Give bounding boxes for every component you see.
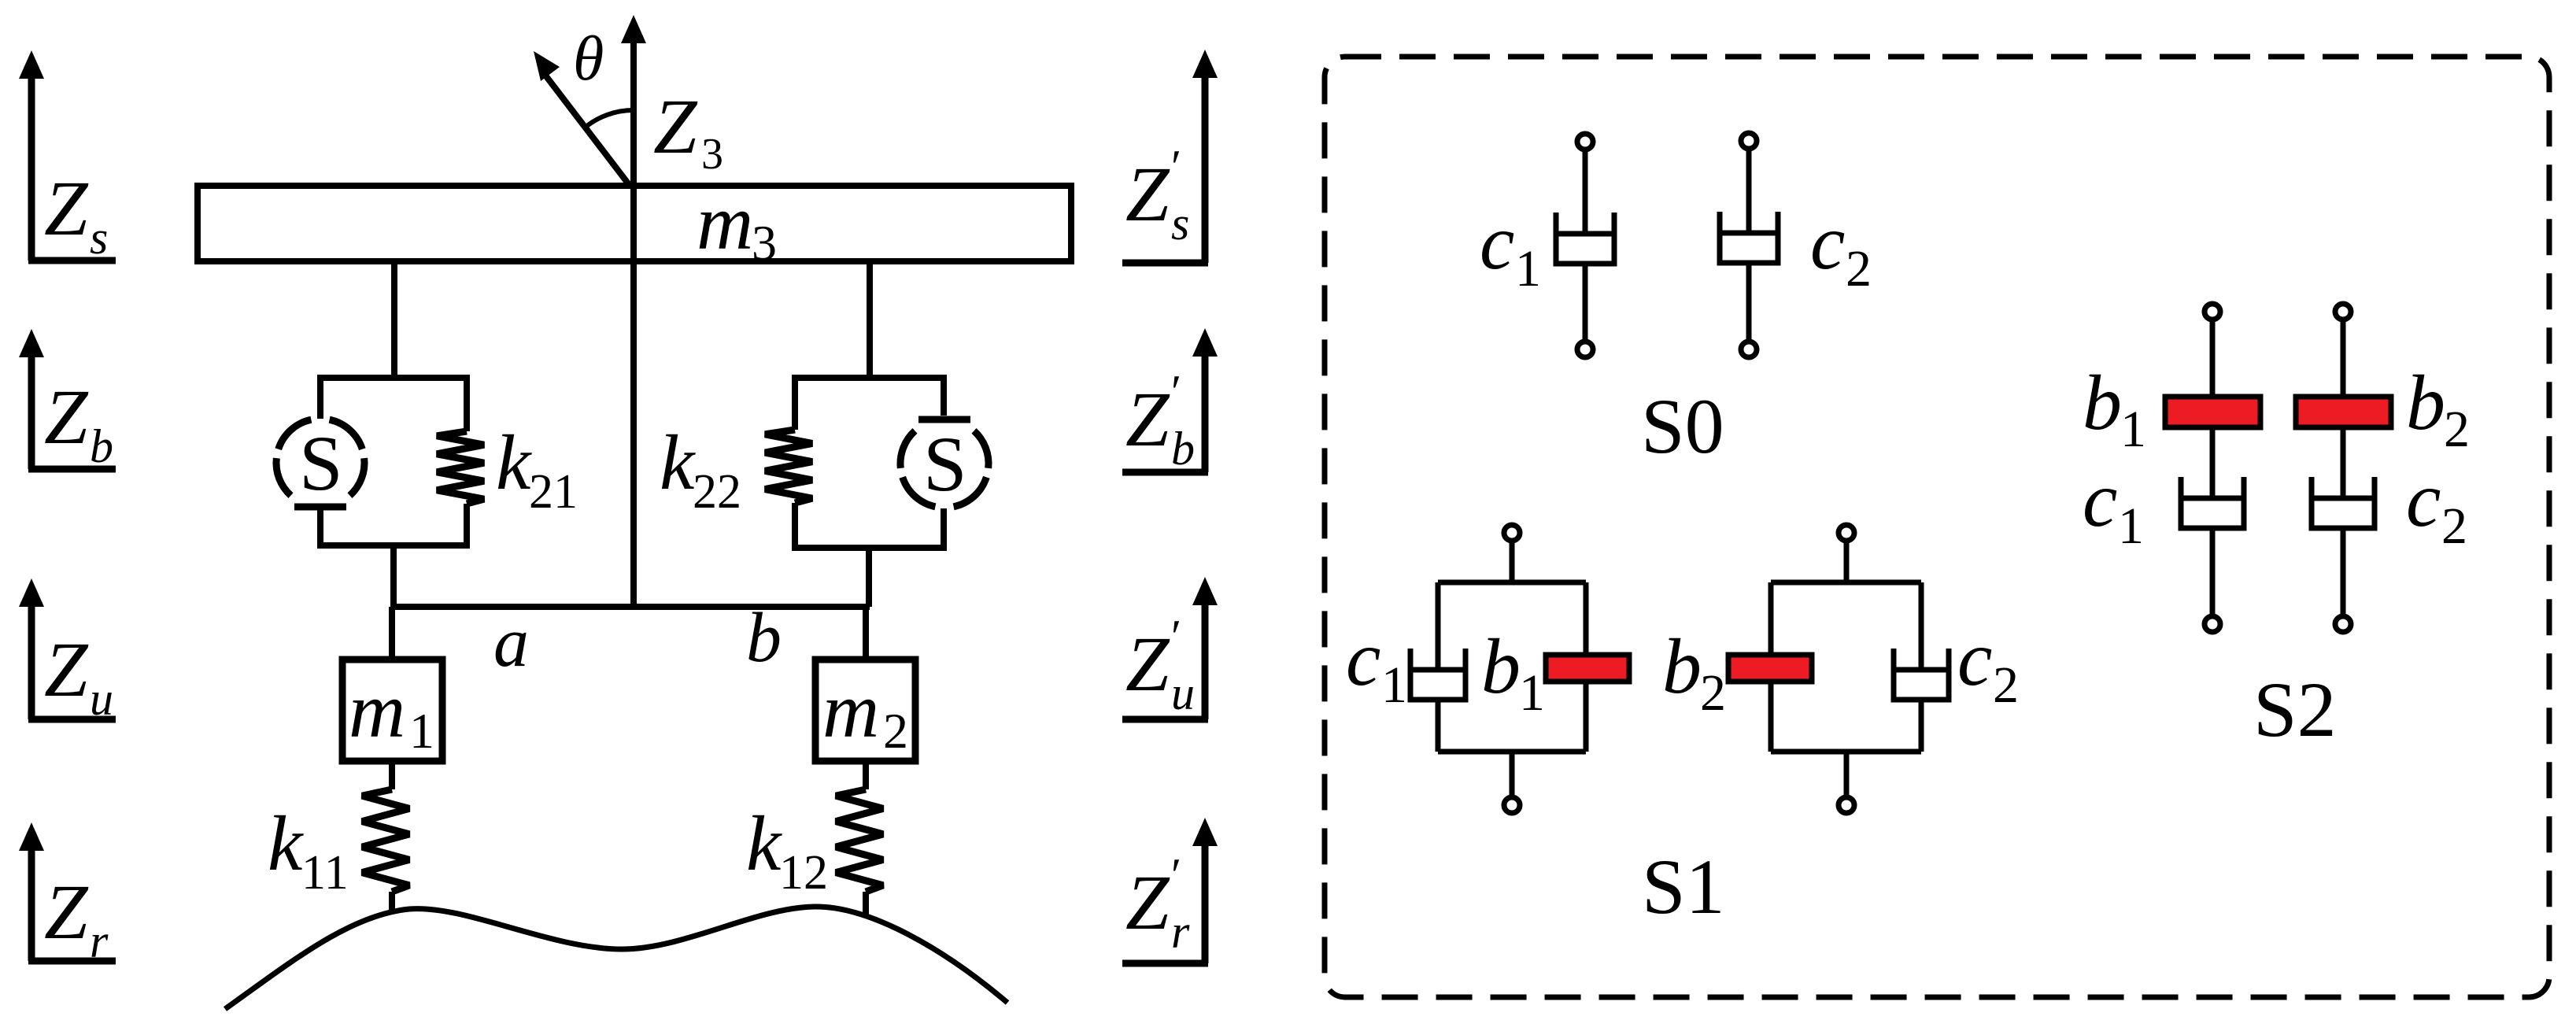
S2 branch b2 c2 bbox=[2296, 304, 2391, 632]
angle arc bbox=[584, 110, 634, 128]
pitch arrow bbox=[534, 51, 630, 187]
wire axle to m2 bbox=[863, 607, 869, 660]
wire left box to axle bbox=[390, 545, 397, 607]
S0 damper c2 bbox=[1720, 133, 1778, 357]
label c2 S2 bbox=[2406, 456, 2467, 555]
svg-text:11: 11 bbox=[301, 846, 349, 900]
svg-text:s: s bbox=[1171, 198, 1189, 249]
svg-text:2: 2 bbox=[2441, 497, 2467, 555]
svg-text:b: b bbox=[1171, 423, 1195, 475]
S1 damper c1 on left wall bbox=[1410, 649, 1465, 700]
svg-text:k: k bbox=[660, 419, 696, 506]
svg-text:b: b bbox=[90, 420, 113, 472]
label m1 bbox=[349, 667, 434, 759]
svg-text:Z: Z bbox=[1125, 150, 1170, 238]
label Z3 bbox=[653, 83, 723, 179]
svg-text:k: k bbox=[496, 419, 532, 506]
label k21 bbox=[496, 419, 578, 519]
svg-text:Z: Z bbox=[44, 164, 89, 252]
S1 valve b1 red bbox=[1546, 655, 1629, 682]
axis Z'r bbox=[1122, 818, 1218, 963]
svg-text:b: b bbox=[2083, 359, 2122, 446]
svg-text:S: S bbox=[299, 419, 343, 507]
actuator S left dashed circle bbox=[276, 419, 364, 507]
svg-text:3: 3 bbox=[752, 215, 777, 271]
axis Z's bbox=[1122, 50, 1218, 263]
svg-text:k: k bbox=[746, 800, 782, 887]
S1 right unit bbox=[1771, 525, 1921, 813]
svg-text:r: r bbox=[1171, 906, 1190, 958]
svg-text:′: ′ bbox=[1171, 141, 1181, 193]
svg-text:3: 3 bbox=[701, 130, 723, 179]
label c1 S1 bbox=[1346, 615, 1407, 714]
label k22 bbox=[660, 419, 741, 519]
svg-text:2: 2 bbox=[1846, 240, 1872, 297]
spring k22 bbox=[765, 430, 812, 503]
svg-text:2: 2 bbox=[1993, 656, 2019, 714]
Z3 axis line bbox=[621, 15, 646, 607]
svg-text:r: r bbox=[90, 915, 109, 967]
axis Zr bbox=[19, 822, 116, 967]
svg-text:1: 1 bbox=[1519, 664, 1545, 722]
svg-text:S1: S1 bbox=[1642, 843, 1725, 930]
svg-text:c: c bbox=[1957, 615, 1992, 702]
svg-text:Z: Z bbox=[1125, 859, 1170, 946]
svg-text:m: m bbox=[697, 179, 753, 266]
svg-text:θ: θ bbox=[573, 24, 604, 94]
axis Zu bbox=[19, 578, 116, 725]
svg-text:1: 1 bbox=[2118, 497, 2144, 555]
S0 damper c1 bbox=[1556, 134, 1614, 357]
svg-text:a: a bbox=[493, 604, 529, 682]
svg-text:′: ′ bbox=[1171, 849, 1181, 901]
axis Z'b bbox=[1122, 328, 1218, 475]
label m3 bbox=[697, 179, 777, 271]
label m2 bbox=[822, 667, 908, 759]
mass m1 bbox=[342, 660, 442, 761]
label k12 bbox=[746, 800, 828, 900]
wire beam to left suspension bbox=[391, 261, 397, 378]
spring k21 bbox=[437, 431, 484, 504]
svg-text:b: b bbox=[746, 599, 782, 677]
svg-text:c: c bbox=[2083, 456, 2117, 543]
svg-text:c: c bbox=[1480, 198, 1514, 286]
spring k12 bbox=[836, 761, 883, 916]
svg-text:k: k bbox=[268, 800, 304, 887]
svg-text:Z: Z bbox=[1125, 375, 1170, 463]
axis Z'u bbox=[1122, 577, 1218, 719]
svg-text:m: m bbox=[822, 667, 879, 754]
svg-text:1: 1 bbox=[1381, 656, 1407, 714]
axle bar bbox=[394, 604, 870, 610]
S2 branch b1 c1 bbox=[2165, 304, 2260, 632]
svg-text:b: b bbox=[2406, 359, 2445, 446]
svg-text:12: 12 bbox=[779, 846, 828, 900]
svg-text:1: 1 bbox=[409, 703, 434, 759]
wire axle to m1 bbox=[389, 607, 395, 660]
mass m2 bbox=[815, 660, 915, 761]
svg-text:c: c bbox=[2406, 456, 2441, 543]
label k11 bbox=[268, 800, 349, 900]
svg-text:22: 22 bbox=[693, 465, 741, 519]
S1 damper c2 on right wall bbox=[1894, 649, 1949, 700]
svg-text:b: b bbox=[1662, 623, 1702, 710]
svg-text:S2: S2 bbox=[2253, 666, 2337, 753]
label c1 S2 bbox=[2083, 456, 2144, 555]
S1 valve b2 red bbox=[1728, 655, 1812, 682]
label c1 S0 bbox=[1480, 198, 1541, 297]
svg-text:u: u bbox=[90, 673, 113, 725]
svg-text:1: 1 bbox=[2120, 401, 2146, 458]
left suspension box bbox=[317, 378, 470, 545]
road profile bbox=[225, 907, 1007, 1009]
svg-text:2: 2 bbox=[1700, 664, 1726, 722]
spring k11 bbox=[362, 761, 409, 911]
svg-text:′: ′ bbox=[1171, 611, 1181, 663]
dashed panel box bbox=[1325, 57, 2549, 997]
svg-text:S: S bbox=[923, 420, 967, 508]
actuator S right dashed circle bbox=[900, 419, 989, 507]
svg-text:′: ′ bbox=[1171, 366, 1181, 418]
svg-text:c: c bbox=[1346, 615, 1380, 702]
svg-text:Z: Z bbox=[44, 868, 89, 955]
label b1 S2 bbox=[2083, 359, 2146, 458]
svg-text:21: 21 bbox=[529, 465, 578, 519]
beam mass m3 bbox=[198, 186, 1071, 261]
label b2 S2 bbox=[2406, 359, 2470, 458]
wire right box to axle bbox=[866, 548, 872, 607]
svg-text:b: b bbox=[1481, 623, 1521, 710]
svg-text:Z: Z bbox=[44, 373, 89, 460]
svg-text:S0: S0 bbox=[1641, 382, 1724, 470]
svg-text:m: m bbox=[349, 667, 405, 754]
right suspension box bbox=[792, 378, 947, 548]
svg-text:1: 1 bbox=[1515, 240, 1541, 297]
svg-text:u: u bbox=[1171, 667, 1195, 719]
label b2 S1 bbox=[1662, 623, 1726, 722]
svg-text:Z: Z bbox=[1125, 620, 1170, 708]
label c2 S1 bbox=[1957, 615, 2019, 714]
axis Zs bbox=[19, 50, 116, 264]
svg-text:Z: Z bbox=[653, 83, 698, 170]
svg-text:c: c bbox=[1810, 198, 1845, 286]
axis Zb bbox=[19, 329, 116, 472]
svg-text:2: 2 bbox=[883, 703, 908, 759]
S1 left unit bbox=[1438, 525, 1586, 813]
label c2 S0 bbox=[1810, 198, 1872, 297]
svg-text:2: 2 bbox=[2444, 401, 2470, 458]
wire beam to right suspension bbox=[867, 261, 873, 378]
svg-text:s: s bbox=[90, 212, 108, 264]
label b1 S1 bbox=[1481, 623, 1545, 722]
svg-text:Z: Z bbox=[44, 626, 89, 713]
